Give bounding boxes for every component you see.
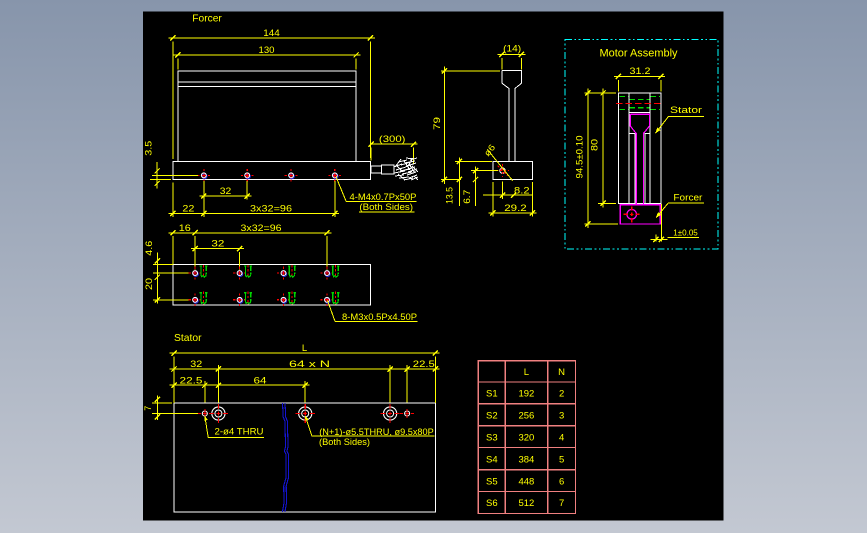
green dashed magnet line wall top	[620, 96, 661, 109]
svg-text:94.5±0.10: 94.5±0.10	[575, 136, 585, 179]
slot lip left	[629, 134, 635, 204]
svg-text:L: L	[302, 343, 307, 354]
break line (cable) blue	[282, 403, 288, 512]
side hole	[496, 164, 509, 177]
svg-text:8-M3x0.5Px4.50P: 8-M3x0.5Px4.50P	[342, 312, 417, 322]
table text	[486, 367, 565, 509]
tapped hole row1 col4	[321, 265, 340, 280]
svg-text:Forcer: Forcer	[192, 13, 222, 25]
svg-text:320: 320	[518, 432, 534, 443]
svg-text:6: 6	[559, 476, 564, 487]
svg-text:(300): (300)	[379, 134, 406, 145]
svg-text:S3: S3	[486, 432, 498, 443]
red dashed centre line	[616, 102, 664, 104]
svg-text:(14): (14)	[503, 44, 521, 55]
svg-text:4: 4	[559, 432, 564, 443]
tapped hole row2 col4	[321, 292, 340, 307]
dimension L	[170, 343, 440, 403]
dimension 16 and 3x32=96 shared line	[169, 223, 332, 270]
svg-text:32: 32	[220, 186, 232, 197]
cable connector block 2	[381, 165, 394, 174]
mounting hole 2	[241, 169, 254, 182]
svg-text:256: 256	[518, 411, 534, 422]
svg-text:29.2: 29.2	[504, 203, 527, 214]
dimension 22	[169, 182, 208, 217]
stator channel inner wall right	[649, 93, 651, 203]
dimension 3x32=96	[201, 181, 339, 217]
svg-text:4-M4x0.7Px50P: 4-M4x0.7Px50P	[350, 192, 417, 202]
svg-text:130: 130	[259, 45, 275, 56]
svg-text:6.7: 6.7	[462, 190, 473, 204]
svg-text:(N+1)-ø5.5THRU, ø9.5x80P: (N+1)-ø5.5THRU, ø9.5x80P	[319, 427, 434, 437]
svg-text:22.5: 22.5	[180, 375, 203, 386]
svg-text:7: 7	[559, 498, 564, 509]
svg-text:13.5: 13.5	[445, 187, 456, 204]
svg-text:384: 384	[518, 454, 534, 465]
svg-text:31.2: 31.2	[630, 66, 651, 77]
bottom view outline	[173, 265, 371, 306]
body lamination line 2	[178, 85, 356, 87]
tapped hole row2 col2	[233, 292, 252, 307]
leader N+1 note	[305, 416, 312, 436]
cavity top line	[629, 112, 650, 114]
mounting hole 4	[328, 169, 341, 182]
svg-text:Motor Assembly: Motor Assembly	[600, 47, 678, 59]
svg-text:S1: S1	[486, 389, 498, 400]
dimension 3.5	[143, 141, 198, 189]
svg-text:448: 448	[518, 476, 534, 487]
forcer base block magenta	[620, 205, 660, 224]
svg-text:1±0.05: 1±0.05	[673, 228, 698, 238]
forcer magenta profile	[630, 114, 649, 204]
svg-text:64 x N: 64 x N	[289, 359, 330, 370]
dimension 130	[174, 45, 361, 69]
svg-text:Stator: Stator	[174, 332, 202, 344]
tapped hole row1 col2	[233, 265, 252, 280]
forcer hole magenta	[624, 206, 640, 222]
leader 2-o4 THRU	[205, 416, 208, 437]
note leader 4-M4	[336, 177, 346, 202]
dimension (300)	[368, 134, 417, 164]
svg-text:L: L	[524, 367, 529, 378]
counterbore hole 3	[381, 404, 400, 423]
dimension 13.5	[445, 158, 492, 207]
dimension 1±0.05	[650, 204, 699, 242]
tapped hole row2 col3	[277, 292, 296, 307]
dimension 22.5 / 64 shared line	[170, 375, 310, 402]
svg-text:80: 80	[590, 139, 601, 151]
dimension (14)	[498, 44, 526, 70]
side base block	[493, 161, 533, 179]
cable connector block 1	[371, 166, 381, 173]
svg-text:3x32=96: 3x32=96	[241, 223, 282, 234]
svg-text:S6: S6	[486, 498, 498, 509]
slot lip right	[645, 134, 650, 204]
stator channel inner wall left	[628, 93, 630, 203]
svg-text:16: 16	[179, 223, 191, 234]
counterbore hole 1	[209, 404, 228, 423]
tapped hole row1 col3	[277, 265, 296, 280]
svg-text:N: N	[558, 367, 565, 378]
black drawing canvas	[143, 12, 724, 521]
dimension 4.6	[144, 241, 191, 284]
dimension 144	[169, 28, 376, 159]
mounting hole 1	[197, 169, 210, 182]
dimension 94.5±0.10	[575, 89, 619, 229]
svg-text:3x32=96: 3x32=96	[250, 203, 292, 214]
svg-text:S2: S2	[486, 411, 498, 422]
mounting hole 3	[285, 169, 298, 182]
dimension 32 / 64xN / 22.5 shared line	[170, 359, 440, 402]
svg-text:64: 64	[254, 375, 267, 386]
svg-text:S5: S5	[486, 476, 498, 487]
dowel hole right	[400, 409, 414, 418]
body lamination line 1	[178, 81, 356, 83]
leader o6 slanted	[487, 149, 512, 180]
svg-text:Stator: Stator	[670, 105, 702, 115]
dimension 20	[144, 273, 191, 303]
dimension 6.7	[462, 167, 498, 207]
svg-text:8.2: 8.2	[514, 185, 530, 196]
note leader 8-M3	[328, 301, 336, 322]
svg-text:S4: S4	[486, 454, 498, 465]
svg-text:79: 79	[432, 117, 443, 130]
dimension 7	[143, 396, 198, 421]
svg-text:2-ø4 THRU: 2-ø4 THRU	[215, 426, 264, 436]
dimension 32 bottom view	[191, 239, 244, 270]
svg-text:3: 3	[559, 411, 564, 422]
side profile of stator beam	[502, 70, 521, 161]
svg-text:4.6: 4.6	[144, 241, 155, 256]
dimension 80	[590, 89, 616, 208]
svg-text:144: 144	[263, 28, 280, 39]
assembly dashed border	[565, 39, 718, 249]
svg-text:32: 32	[190, 359, 202, 370]
svg-text:5: 5	[559, 454, 564, 465]
counterbore hole 2	[296, 404, 315, 423]
svg-text:Forcer: Forcer	[673, 193, 702, 203]
dimension 79	[432, 67, 500, 184]
dowel hole left	[198, 409, 212, 418]
svg-text:512: 512	[518, 498, 534, 509]
stator plate outline	[174, 403, 435, 512]
stator channel outer	[618, 93, 660, 203]
svg-text:20: 20	[144, 278, 155, 290]
dimension 8.2	[483, 182, 532, 199]
base plate outline	[173, 162, 371, 180]
cable strand scribble	[394, 158, 418, 180]
svg-text:22: 22	[182, 203, 194, 214]
tapped hole row2 col1	[189, 292, 208, 307]
dimension 32	[200, 181, 252, 217]
svg-text:2: 2	[559, 389, 564, 400]
svg-text:3.5: 3.5	[143, 141, 154, 156]
svg-text:(Both Sides): (Both Sides)	[359, 202, 413, 212]
dimension 29.2	[489, 182, 537, 217]
tapped hole row1 col1	[189, 265, 208, 280]
dimension 31.2	[614, 66, 665, 91]
svg-text:(Both Sides): (Both Sides)	[319, 437, 370, 447]
size table grid	[478, 361, 575, 514]
svg-text:32: 32	[211, 239, 224, 250]
svg-text:22.5: 22.5	[413, 359, 435, 370]
svg-text:7: 7	[143, 406, 153, 411]
forcer body outline	[178, 71, 356, 162]
svg-text:192: 192	[518, 389, 534, 400]
